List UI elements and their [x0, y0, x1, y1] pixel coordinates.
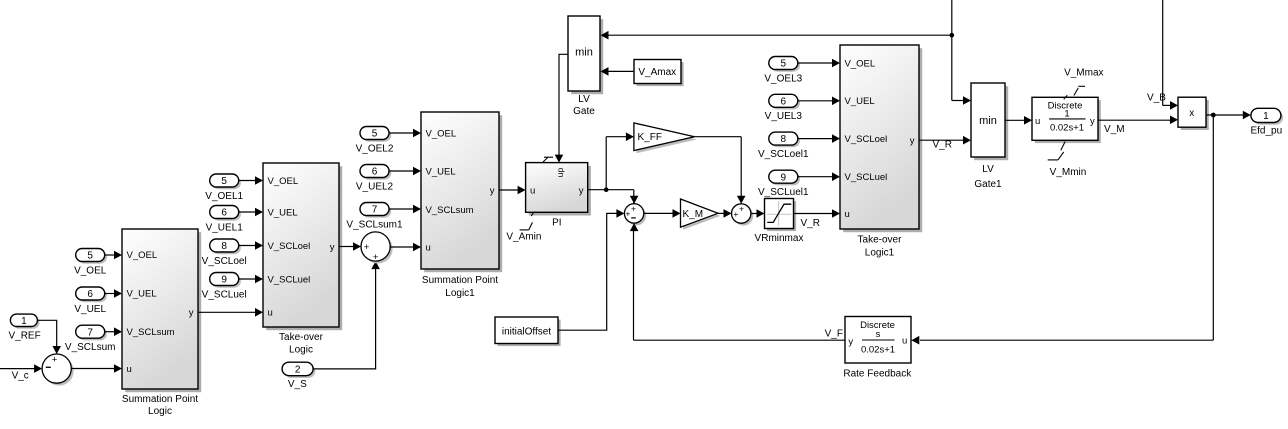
- svg-text:Gate1: Gate1: [974, 179, 1002, 190]
- svg-text:V_SCLuel1: V_SCLuel1: [758, 187, 809, 198]
- gain K_FF: [634, 123, 697, 153]
- wire port 6 to Summation Point Logic1: [389, 167, 421, 176]
- svg-text:V_S: V_S: [288, 379, 307, 390]
- svg-text:u: u: [268, 308, 273, 319]
- block Summation Point Logic: [122, 229, 201, 417]
- svg-text:+: +: [739, 203, 744, 213]
- gain K_M: [681, 199, 721, 230]
- output port 1 (Efd_pu): [1250, 108, 1283, 136]
- svg-text:1: 1: [1263, 111, 1269, 122]
- svg-text:V_R: V_R: [801, 218, 820, 229]
- svg-text:5: 5: [221, 176, 227, 187]
- wire K_FF to sum junction B: [695, 137, 746, 204]
- wire upper feedback bus to LV Gate and LV Gate1: [601, 0, 972, 105]
- svg-text:1: 1: [21, 316, 27, 327]
- input port 6 (V_UEL1): [206, 206, 244, 234]
- svg-text:V_OEL2: V_OEL2: [356, 143, 394, 154]
- svg-text:0.02s+1: 0.02s+1: [861, 344, 895, 355]
- svg-text:u: u: [530, 185, 535, 196]
- saturation mark upper (PI): [543, 157, 553, 162]
- svg-text:9: 9: [221, 275, 227, 286]
- saturation marks and V_Mmax annotation (Discrete): [1064, 68, 1104, 100]
- sum junction A (PI + initialOffset - V_F): [624, 204, 646, 226]
- svg-text:y: y: [848, 336, 853, 347]
- svg-text:Summation Point: Summation Point: [422, 275, 498, 286]
- svg-text:V_OEL: V_OEL: [127, 250, 158, 261]
- product block x: [1178, 97, 1209, 130]
- svg-text:7: 7: [372, 205, 378, 216]
- svg-text:V_Mmin: V_Mmin: [1050, 167, 1087, 178]
- svg-text:K_FF: K_FF: [638, 132, 662, 143]
- svg-text:2: 2: [295, 365, 301, 376]
- svg-text:V_UEL: V_UEL: [268, 207, 298, 218]
- svg-text:+: +: [52, 354, 58, 365]
- saturation mark lower (PI) and V_Amin annotation: [506, 212, 541, 243]
- svg-text:V_UEL: V_UEL: [127, 289, 157, 300]
- wire Take-over Logic y to sum junction: [339, 242, 361, 251]
- wire port 8 to Take-over Logic1: [798, 134, 840, 143]
- input port 5 (V_OEL3): [764, 57, 802, 85]
- input port 5 (V_OEL): [74, 249, 107, 277]
- input port 9 (V_SCLuel1): [758, 170, 809, 198]
- input port 6 (V_UEL2): [356, 165, 394, 193]
- wire port 5 to Summation Point Logic: [105, 251, 122, 260]
- wire feedback down to Rate Feedback u: [911, 115, 1213, 345]
- svg-text:6: 6: [372, 167, 378, 178]
- svg-text:V_UEL: V_UEL: [426, 166, 456, 177]
- svg-text:Logic1: Logic1: [445, 288, 475, 299]
- svg-text:x: x: [1189, 108, 1194, 119]
- block V_Amax constant: [634, 60, 684, 87]
- wire Take-over Logic1 y to LV Gate1 (V_R): [919, 136, 971, 150]
- svg-text:V_c: V_c: [12, 371, 29, 382]
- wire Summation Point Logic1 y to PI u: [499, 186, 526, 195]
- svg-text:VRminmax: VRminmax: [755, 233, 804, 244]
- sum junction B (K_M + K_FF): [732, 203, 754, 225]
- block LV Gate1 (min): [971, 83, 1008, 190]
- wire port 6 to Summation Point Logic: [105, 289, 122, 298]
- svg-text:V_Amax: V_Amax: [638, 67, 676, 78]
- svg-text:Logic: Logic: [148, 406, 172, 417]
- svg-text:V_R: V_R: [933, 139, 952, 150]
- svg-text:+: +: [364, 242, 370, 253]
- block Take-over Logic1: [840, 45, 922, 259]
- svg-text:9: 9: [781, 172, 787, 183]
- svg-text:6: 6: [221, 208, 227, 219]
- wire branch node up to K_FF: [606, 132, 634, 189]
- svg-text:K_M: K_M: [683, 209, 704, 220]
- block Take-over Logic: [263, 163, 342, 356]
- svg-text:V_OEL: V_OEL: [268, 176, 299, 187]
- svg-text:V_OEL: V_OEL: [74, 265, 107, 276]
- svg-text:V_OEL: V_OEL: [426, 128, 457, 139]
- block initialOffset constant: [495, 317, 561, 346]
- wire sum B to VRminmax: [751, 209, 765, 218]
- svg-text:y: y: [490, 185, 495, 196]
- wire sum to Summation Point Logic u: [71, 364, 122, 373]
- svg-text:V_SCLoel: V_SCLoel: [845, 134, 888, 145]
- wire port 5 to Summation Point Logic1: [389, 129, 421, 138]
- wire port 9 to Take-over Logic: [239, 275, 263, 284]
- saturation block VRminmax: [755, 199, 804, 245]
- wire port 7 to Summation Point Logic1: [389, 205, 421, 214]
- block LV Gate (min): [568, 16, 603, 117]
- wire port 6 to Take-over Logic: [239, 208, 263, 217]
- svg-text:Gate: Gate: [573, 106, 595, 117]
- svg-text:V_UEL3: V_UEL3: [765, 111, 803, 122]
- svg-text:y: y: [910, 136, 915, 147]
- svg-text:u: u: [127, 364, 132, 375]
- wire VRminmax to Take-over Logic1 u (V_R): [794, 209, 841, 229]
- svg-text:V_UEL1: V_UEL1: [206, 222, 244, 233]
- input port 6 (V_UEL): [74, 287, 107, 315]
- svg-text:PI: PI: [552, 217, 561, 228]
- wire V_B input to product: [1147, 0, 1178, 110]
- svg-text:V_OEL1: V_OEL1: [205, 191, 243, 202]
- svg-text:min: min: [979, 115, 997, 127]
- svg-text:1: 1: [1064, 109, 1069, 120]
- svg-text:+: +: [733, 209, 738, 219]
- svg-text:min: min: [575, 47, 593, 59]
- svg-text:u: u: [1035, 116, 1040, 127]
- svg-text:5: 5: [372, 129, 378, 140]
- input port 5 (V_OEL1): [205, 174, 243, 202]
- svg-text:5: 5: [781, 59, 787, 70]
- svg-text:u: u: [426, 242, 431, 253]
- wire Discrete y to product (V_M): [1098, 116, 1178, 135]
- wire LV Gate1 to Discrete block: [1005, 116, 1032, 125]
- svg-text:+: +: [373, 252, 379, 263]
- svg-text:V_M: V_M: [1104, 124, 1125, 135]
- svg-text:Efd_pu: Efd_pu: [1250, 125, 1282, 136]
- svg-text:Summation Point: Summation Point: [122, 394, 198, 405]
- svg-text:y: y: [189, 307, 194, 318]
- svg-text:V_UEL2: V_UEL2: [356, 181, 394, 192]
- svg-text:V_SCLsum: V_SCLsum: [127, 327, 175, 338]
- svg-text:LV: LV: [982, 164, 994, 175]
- svg-text:V_REF: V_REF: [8, 330, 40, 341]
- svg-text:V_Amin: V_Amin: [506, 231, 541, 242]
- svg-text:up: up: [555, 168, 565, 178]
- svg-text:V_SCLsum1: V_SCLsum1: [346, 219, 403, 230]
- wire port 6 to Take-over Logic1: [798, 97, 840, 106]
- svg-text:V_F: V_F: [825, 329, 843, 340]
- svg-text:V_SCLoel: V_SCLoel: [268, 241, 311, 252]
- svg-text:y: y: [330, 242, 335, 253]
- svg-text:Logic: Logic: [289, 345, 313, 356]
- svg-text:initialOffset: initialOffset: [502, 326, 552, 337]
- sum junction (V_REF - V_c): [42, 354, 74, 386]
- block Summation Point Logic1: [421, 112, 502, 299]
- svg-text:5: 5: [87, 251, 93, 262]
- input port 2 (V_S): [282, 362, 315, 390]
- svg-text:V_SCLuel: V_SCLuel: [268, 274, 311, 285]
- wire sum to Summation Point Logic1 u: [390, 243, 421, 252]
- wire sum A to K_M: [644, 209, 681, 218]
- wire port 9 to Take-over Logic1: [798, 172, 840, 181]
- input port 7 (V_SCLsum): [65, 325, 116, 353]
- wire V_c input: [0, 364, 42, 381]
- input port 6 (V_UEL3): [765, 94, 803, 122]
- wire LV Gate output to PI saturation port: [555, 54, 568, 162]
- wire V_S to sum junction: [313, 261, 380, 369]
- svg-text:8: 8: [781, 134, 787, 145]
- svg-text:s: s: [876, 329, 881, 340]
- wire port 5 to Take-over Logic1: [798, 59, 840, 68]
- sum junction (y + V_S): [361, 232, 393, 264]
- wire PI y to sum junction A (with branch node): [588, 187, 639, 205]
- svg-text:8: 8: [221, 241, 227, 252]
- svg-text:0.02s+1: 0.02s+1: [1050, 123, 1084, 134]
- wire port 8 to Take-over Logic: [239, 241, 263, 250]
- svg-text:V_UEL: V_UEL: [74, 304, 106, 315]
- svg-text:y: y: [579, 185, 584, 196]
- wire K_M to sum junction B: [718, 209, 732, 218]
- input port 5 (V_OEL2): [356, 127, 394, 155]
- input port 9 (V_SCLuel): [202, 273, 247, 301]
- input port 8 (V_SCLoel1): [758, 132, 809, 160]
- input port 8 (V_SCLoel): [202, 239, 247, 267]
- svg-text:V_SCLuel: V_SCLuel: [202, 289, 247, 300]
- wire V_REF to sum junction: [37, 320, 61, 354]
- wire port 7 to Summation Point Logic: [105, 327, 122, 336]
- wire Summation Point Logic y to Take-over Logic u: [198, 308, 263, 317]
- wire initialOffset to sum junction A: [558, 209, 624, 330]
- block Discrete 1/(0.02s+1): [1032, 97, 1101, 143]
- svg-text:V_SCLsum: V_SCLsum: [426, 205, 474, 216]
- svg-text:V_B: V_B: [1147, 93, 1166, 104]
- wire product to output port (with feedback node): [1206, 111, 1251, 120]
- svg-text:6: 6: [781, 96, 787, 107]
- svg-text:+: +: [625, 209, 630, 219]
- saturation marks and V_Mmin annotation (Discrete): [1048, 142, 1087, 178]
- svg-text:6: 6: [87, 289, 93, 300]
- svg-text:Take-over: Take-over: [858, 235, 903, 246]
- input port 7 (V_SCLsum1): [346, 203, 403, 231]
- svg-text:Logic1: Logic1: [865, 248, 895, 259]
- svg-text:V_OEL3: V_OEL3: [764, 73, 802, 84]
- wire port 5 to Take-over Logic: [239, 176, 263, 185]
- svg-text:V_OEL: V_OEL: [845, 58, 876, 69]
- svg-text:LV: LV: [578, 94, 590, 105]
- input port 1 (V_REF): [8, 314, 40, 341]
- svg-text:V_SCLsum: V_SCLsum: [65, 342, 116, 353]
- svg-text:V_SCLoel1: V_SCLoel1: [758, 149, 809, 160]
- svg-text:u: u: [845, 209, 850, 220]
- wire Rate Feedback y to sum junction A (V_F): [630, 223, 845, 340]
- svg-text:7: 7: [87, 327, 93, 338]
- svg-text:u: u: [902, 336, 907, 347]
- svg-text:y: y: [1090, 116, 1095, 127]
- svg-text:V_Mmax: V_Mmax: [1064, 68, 1103, 79]
- svg-text:V_UEL: V_UEL: [845, 96, 875, 107]
- block Rate Feedback s/(0.02s+1): [843, 317, 912, 380]
- block PI controller: [526, 163, 591, 229]
- svg-text:Take-over: Take-over: [279, 332, 324, 343]
- svg-text:V_SCLuel: V_SCLuel: [845, 172, 888, 183]
- svg-text:Rate Feedback: Rate Feedback: [843, 369, 912, 380]
- svg-text:V_SCLoel: V_SCLoel: [202, 256, 247, 267]
- svg-text:+: +: [631, 204, 636, 214]
- wire V_Amax to LV Gate input: [601, 67, 635, 76]
